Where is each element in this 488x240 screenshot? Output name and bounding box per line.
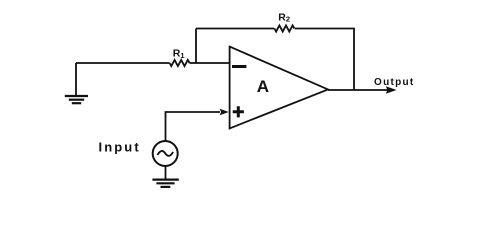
wire feedback top left [196, 28, 274, 30]
ground GND1 (left) [65, 63, 88, 103]
pin - (inverting input marker) [232, 65, 246, 68]
resistor R2 [274, 25, 294, 31]
op-amp U1 [230, 47, 328, 129]
wire feedback top right and down to output [295, 29, 354, 91]
source V1 (AC source) [153, 141, 178, 166]
wire from ground to R1 [76, 62, 170, 64]
wire source to ground [165, 166, 167, 180]
output arrowhead [386, 86, 397, 94]
node: feedback tap junction [195, 29, 197, 64]
pin + (non-inverting input marker) [233, 106, 244, 117]
wire R1 to op-amp inverting input [190, 62, 230, 64]
resistor R1 [170, 60, 190, 66]
svg-text:Output: Output [374, 77, 415, 88]
input arrowhead into + [220, 109, 229, 116]
wire output [328, 89, 388, 91]
svg-text:Input: Input [99, 139, 141, 154]
wire input to non-inverting input [166, 112, 221, 140]
ground GND2 (below source) [152, 180, 178, 187]
svg-text:A: A [257, 77, 269, 96]
